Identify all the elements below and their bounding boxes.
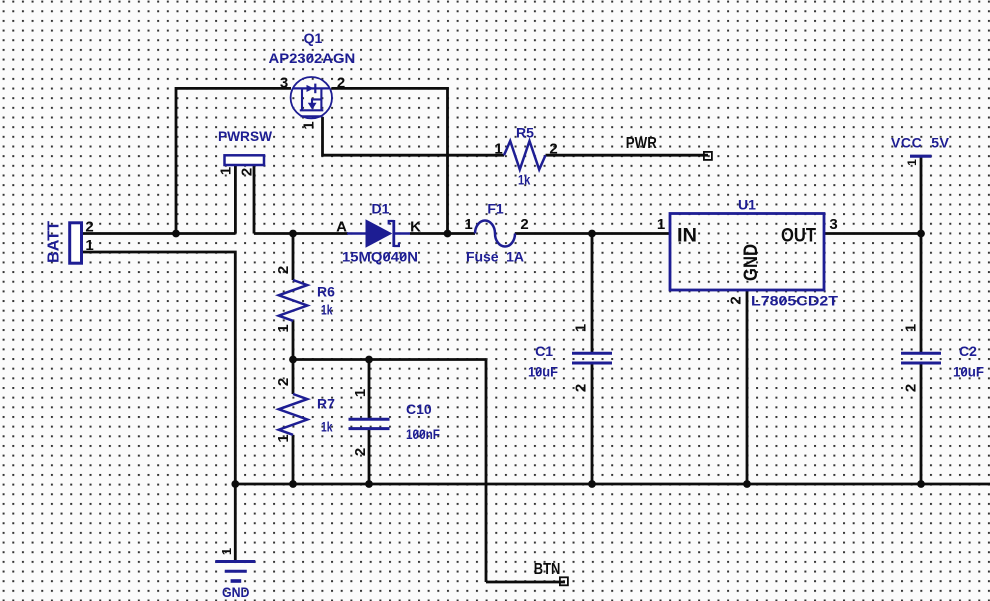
svg-text:1: 1 [573, 324, 590, 332]
svg-text:1: 1 [275, 324, 292, 332]
value C1 10uF [528, 364, 558, 380]
svg-text:1: 1 [352, 389, 369, 397]
pin number R7 1 [275, 434, 292, 442]
pin number R5 1 [494, 141, 502, 158]
wire VCC to node [920, 158, 923, 353]
pin name IN [677, 226, 697, 247]
label VCC 5V [891, 135, 950, 151]
svg-text:R6: R6 [317, 284, 335, 300]
pin number BATT 1 [85, 237, 93, 254]
svg-text:R5: R5 [516, 125, 534, 141]
svg-text:1k: 1k [518, 172, 530, 188]
svg-text:BTN: BTN [534, 561, 561, 578]
value R5 1k [518, 172, 530, 188]
svg-text:10uF: 10uF [953, 364, 984, 380]
capacitor C1 [572, 353, 612, 363]
wire Q1 source to R5 [323, 117, 505, 155]
wire R7 bottom [292, 435, 295, 484]
svg-text:Q1: Q1 [304, 30, 323, 46]
wire PWRSW pin2 leg [253, 165, 256, 234]
wire C10 bottom [368, 430, 371, 484]
pin label D1 K [410, 218, 421, 235]
pin number F1 2 [520, 216, 528, 233]
junction node C10 bottom [365, 480, 373, 488]
label C1 [535, 343, 553, 359]
svg-text:2: 2 [549, 141, 557, 158]
svg-text:2: 2 [728, 296, 745, 304]
resistor R6 [279, 280, 308, 321]
wire U1 OUT to VCC node [824, 232, 921, 235]
svg-text:1: 1 [494, 141, 502, 158]
switch PWRSW body [225, 155, 265, 165]
svg-text:2: 2 [573, 384, 590, 392]
wire D1 cathode to F1 [410, 232, 475, 235]
wire F1 to U1 IN pin [515, 232, 670, 235]
svg-text:2: 2 [337, 74, 345, 91]
value AP2302AGN [269, 50, 356, 66]
pin number GND 1 [219, 548, 234, 555]
svg-text:1: 1 [464, 216, 472, 233]
connector BATT [70, 223, 82, 263]
svg-text:2: 2 [275, 266, 292, 274]
power port VCC bar [910, 155, 932, 158]
pin number C2 2 [903, 384, 920, 392]
pin number R5 2 [549, 141, 557, 158]
svg-text:2: 2 [239, 168, 256, 176]
junction node VCC [917, 230, 925, 238]
port PWR label [626, 135, 657, 152]
port BTN label [534, 561, 561, 578]
label F1 [487, 201, 504, 217]
wire C1 bottom [591, 365, 594, 485]
wire PWRSW to D1 anode [254, 232, 348, 235]
svg-text:3: 3 [280, 74, 288, 91]
pin number PWRSW 2 [239, 168, 256, 176]
label C2 [959, 343, 977, 359]
svg-text:R7: R7 [317, 396, 335, 412]
value Fuse 1A [466, 249, 524, 265]
transistor Q1 circle [291, 77, 332, 118]
transistor Q1 pin1 chord [301, 115, 323, 117]
transistor Q1 source bar [300, 109, 324, 111]
pin number C10 2 [352, 448, 369, 456]
wire BTN horizontal to port [486, 581, 565, 584]
pin number PWRSW 1 [218, 167, 235, 175]
value C2 10uF [953, 364, 984, 380]
junction node U1 GND [743, 480, 751, 488]
regulator U1 box [670, 214, 824, 291]
svg-text:1: 1 [219, 548, 234, 555]
svg-text:C1: C1 [535, 343, 553, 359]
label Q1 [304, 30, 323, 46]
port PWR pad [704, 152, 712, 160]
svg-text:A: A [336, 218, 347, 235]
pin name OUT [781, 226, 816, 247]
port BTN pad [560, 577, 568, 585]
pin number C1 1 [573, 324, 590, 332]
svg-text:AP2302AGN: AP2302AGN [269, 50, 356, 66]
wire R7 top [292, 360, 295, 395]
label BATT [46, 221, 63, 263]
svg-text:U1: U1 [738, 197, 756, 213]
pin number U1 3 [829, 216, 837, 233]
wire BATT pin1 to ground rail [82, 252, 236, 484]
label D1 [372, 201, 390, 217]
svg-text:1: 1 [85, 237, 93, 254]
pin number R6 1 [275, 324, 292, 332]
pin number R6 2 [275, 266, 292, 274]
svg-text:1: 1 [275, 434, 292, 442]
transistor Q1 arrow branch [308, 99, 321, 109]
label GND [222, 584, 250, 600]
svg-text:3: 3 [829, 216, 837, 233]
svg-text:1: 1 [218, 167, 235, 175]
svg-text:2: 2 [520, 216, 528, 233]
value R6 1k [321, 302, 333, 318]
junction node GND tap [231, 480, 239, 488]
junction node C1 top [588, 230, 596, 238]
wire Q1 drain to node [332, 88, 448, 233]
transistor Q1 body diode [307, 84, 316, 94]
label C10 [406, 401, 432, 417]
pin number Q1 1 [301, 121, 318, 129]
svg-text:Fuse 1A: Fuse 1A [466, 249, 524, 265]
wire PWRSW pin1 leg [234, 165, 237, 234]
junction node C2 bottom [917, 480, 925, 488]
junction node R6 top [289, 230, 297, 238]
pin number R7 2 [275, 378, 292, 386]
svg-text:C10: C10 [406, 401, 432, 417]
svg-text:1: 1 [301, 121, 318, 129]
wire BTN vertical drop [485, 360, 488, 583]
transistor Q1 channel bar [320, 89, 322, 110]
svg-text:PWR: PWR [626, 135, 657, 152]
svg-text:F1: F1 [487, 201, 504, 217]
label R7 [317, 396, 335, 412]
svg-text:PWRSW: PWRSW [218, 128, 273, 144]
svg-text:C2: C2 [959, 343, 977, 359]
svg-text:GND: GND [222, 584, 250, 600]
wire R5 to PWR port [546, 154, 709, 157]
wire Q1 gate loop left [176, 88, 291, 233]
label U1 [738, 197, 756, 213]
pin name GND [741, 244, 762, 281]
wire GND tap [234, 484, 237, 561]
diode D1 triangle [366, 219, 393, 247]
pin number Q1 2 [337, 74, 345, 91]
label PWRSW [218, 128, 273, 144]
wire C10 top [368, 360, 371, 419]
wire R6 bottom [292, 321, 295, 360]
pin number U1 1 [657, 216, 665, 233]
svg-text:IN: IN [677, 226, 697, 247]
svg-text:1k: 1k [321, 419, 333, 435]
ground symbol [215, 562, 255, 582]
pin number C1 2 [573, 384, 590, 392]
svg-text:D1: D1 [372, 201, 390, 217]
svg-text:OUT: OUT [781, 226, 816, 247]
label R5 [516, 125, 534, 141]
svg-text:2: 2 [903, 384, 920, 392]
value R7 1k [321, 419, 333, 435]
capacitor C10 [349, 419, 390, 428]
wire C1 top [591, 234, 594, 353]
svg-text:L7805CD2T: L7805CD2T [751, 293, 838, 309]
svg-text:1: 1 [657, 216, 665, 233]
pin number U1 2 [728, 296, 745, 304]
pin number VCC 1 [905, 159, 919, 166]
svg-text:GND: GND [741, 244, 762, 281]
diode D1 anode stub [347, 232, 366, 235]
pin number C10 1 [352, 389, 369, 397]
wire C2 bottom [920, 365, 923, 485]
transistor Q1 gate bar [301, 89, 303, 110]
pin number C2 1 [903, 324, 920, 332]
diode D1 cathode stub [394, 232, 410, 235]
junction node C10 top [365, 356, 373, 364]
diode D1 schottky bar [389, 220, 399, 247]
svg-text:2: 2 [352, 448, 369, 456]
svg-text:10uF: 10uF [528, 364, 558, 380]
wire R6 top [292, 234, 295, 281]
junction node BATT/gate [172, 230, 180, 238]
value C10 100nF [406, 426, 440, 442]
junction node C1 bottom [588, 480, 596, 488]
pin number BATT 2 [85, 219, 93, 236]
pin label D1 A [336, 218, 347, 235]
pin number Q1 3 [280, 74, 288, 91]
value L7805CD2T [751, 293, 838, 309]
svg-text:BATT: BATT [46, 221, 63, 263]
fuse F1 [475, 221, 515, 247]
pin number F1 1 [464, 216, 472, 233]
svg-text:VCC 5V: VCC 5V [891, 135, 950, 151]
ground rail [234, 483, 990, 486]
junction node R6 bottom [289, 356, 297, 364]
svg-text:15MQ040N: 15MQ040N [342, 249, 418, 265]
svg-text:K: K [410, 218, 421, 235]
junction node R7 bottom [289, 480, 297, 488]
svg-text:1k: 1k [321, 302, 333, 318]
junction node D1 cathode [444, 230, 452, 238]
resistor R5 [504, 141, 546, 170]
label R6 [317, 284, 335, 300]
svg-text:2: 2 [275, 378, 292, 386]
wire U1 GND pin down [746, 290, 749, 484]
capacitor C2 [901, 353, 941, 363]
wire node R6R7 to BTN corner [293, 358, 486, 361]
resistor R7 [279, 394, 308, 435]
transistor Q1 internal drain-source line [293, 87, 330, 89]
svg-text:1: 1 [903, 324, 920, 332]
value 15MQ040N [342, 249, 418, 265]
wire BATT pin2 to PWRSW pin1 [82, 232, 236, 235]
svg-text:1: 1 [905, 159, 919, 166]
svg-text:2: 2 [85, 219, 93, 236]
